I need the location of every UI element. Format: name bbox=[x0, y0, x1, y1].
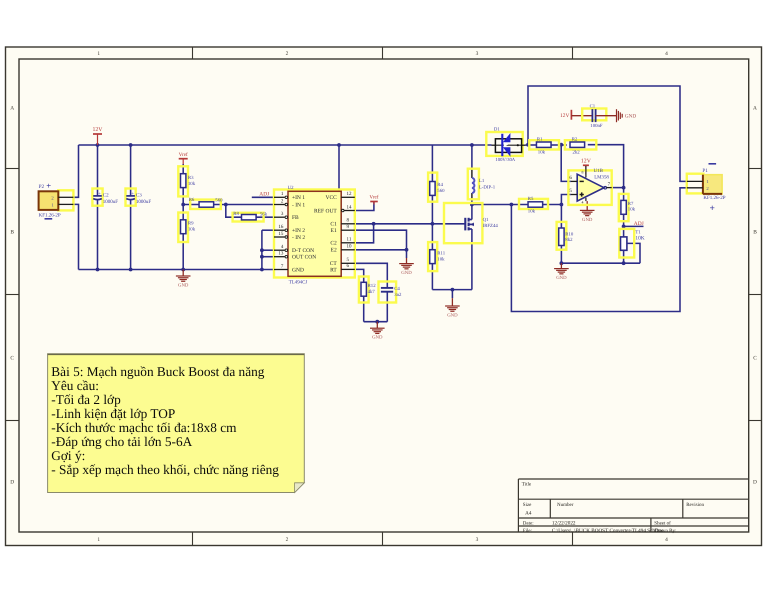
wire between R1 and R2 bbox=[551, 144, 567, 146]
svg-text:Vref: Vref bbox=[369, 195, 378, 201]
svg-text:4k7: 4k7 bbox=[368, 289, 376, 295]
svg-text:E1: E1 bbox=[331, 228, 337, 234]
svg-text:R1: R1 bbox=[537, 136, 543, 142]
wire C1-C2 tie bbox=[355, 224, 374, 243]
svg-text:LM358: LM358 bbox=[594, 175, 609, 181]
U2 pin 9 E1 bbox=[341, 229, 355, 231]
svg-text:R10: R10 bbox=[565, 231, 574, 237]
svg-text:L1: L1 bbox=[479, 178, 485, 184]
svg-text:13: 13 bbox=[278, 251, 284, 257]
ground divider bbox=[182, 270, 184, 277]
capacitor C3 bbox=[126, 189, 136, 206]
svg-text:1: 1 bbox=[97, 51, 100, 57]
svg-text:P1: P1 bbox=[702, 168, 708, 174]
U2 pin 11 C2 bbox=[341, 242, 355, 244]
wire Q1 ground rail bbox=[432, 289, 472, 291]
wire Q1 source bbox=[471, 229, 473, 290]
U2 pin 2 - IN 1 bbox=[274, 204, 285, 206]
capacitor C1 bbox=[582, 109, 606, 121]
svg-text:R2: R2 bbox=[572, 136, 578, 142]
junction dots bbox=[96, 143, 100, 147]
svg-text:D1: D1 bbox=[494, 127, 500, 133]
svg-text:C: C bbox=[753, 356, 757, 362]
svg-text:R6: R6 bbox=[189, 197, 195, 203]
svg-text:C2: C2 bbox=[103, 193, 109, 199]
svg-text:C2: C2 bbox=[330, 241, 337, 247]
svg-text:- IN 2: - IN 2 bbox=[292, 235, 305, 241]
svg-text:R8: R8 bbox=[233, 211, 239, 217]
capacitor C4 bbox=[379, 282, 397, 303]
wire CT to C4 bbox=[355, 263, 388, 288]
wire D1 right to R1 rail bbox=[526, 144, 537, 146]
svg-text:R3: R3 bbox=[188, 175, 194, 181]
U2 pin 5 CT bbox=[341, 262, 355, 264]
svg-text:GND: GND bbox=[372, 335, 383, 341]
svg-text:10k: 10k bbox=[628, 207, 636, 213]
U2 pin 3 FB bbox=[274, 216, 285, 218]
svg-text:3n2: 3n2 bbox=[394, 292, 402, 298]
svg-text:10k: 10k bbox=[528, 208, 536, 214]
wire T1 wiper bbox=[627, 243, 640, 263]
svg-text:C1: C1 bbox=[590, 104, 596, 110]
svg-text:560: 560 bbox=[437, 188, 445, 194]
wire ADJ net stub right bbox=[624, 225, 644, 227]
svg-text:10k: 10k bbox=[538, 150, 546, 156]
ground Q1 source bbox=[451, 290, 453, 299]
svg-text:KF1.26-2P: KF1.26-2P bbox=[39, 212, 61, 218]
svg-text:U1B: U1B bbox=[594, 168, 604, 174]
svg-text:1: 1 bbox=[97, 537, 100, 543]
svg-text:Bài 5: Mạch nguồn Buck Boost đ: Bài 5: Mạch nguồn Buck Boost đa năng bbox=[51, 364, 264, 379]
connector P1 bbox=[687, 174, 704, 194]
wire divider R9 leads bbox=[182, 205, 184, 220]
resistor R4 bbox=[428, 173, 437, 202]
wire R8 to FB pin3 bbox=[256, 216, 274, 218]
ground op-amp bbox=[586, 201, 588, 210]
resistor R2 bbox=[565, 140, 596, 149]
svg-text:ADJ: ADJ bbox=[634, 221, 644, 227]
wire C2 stems bbox=[97, 145, 99, 196]
op-amp U2 TL494 body bbox=[274, 190, 355, 278]
U2 pin 8 C1 bbox=[341, 223, 355, 225]
wire P2 pin1 riser bbox=[73, 145, 78, 197]
U2 pin 16 +IN 2 bbox=[274, 229, 285, 231]
note box bbox=[48, 354, 305, 493]
diode D1 dual 100V/30A bbox=[486, 132, 522, 156]
U2 pin 13 OUT CON bbox=[274, 256, 285, 258]
svg-text:+IN 2: +IN 2 bbox=[292, 228, 305, 234]
svg-text:12V: 12V bbox=[560, 113, 569, 119]
wire divider R3 leads bbox=[182, 164, 184, 174]
wire RT to R12 bbox=[355, 269, 364, 282]
svg-text:10k: 10k bbox=[188, 226, 196, 232]
svg-text:15: 15 bbox=[278, 231, 284, 237]
frame column ticks bbox=[192, 47, 194, 59]
svg-text:GND: GND bbox=[401, 270, 412, 276]
svg-text:P2: P2 bbox=[39, 184, 45, 190]
U2 pin 6 RT bbox=[341, 268, 355, 270]
wire P2 pin2 faller bbox=[73, 204, 78, 269]
wire R6-R8 step bbox=[226, 205, 242, 218]
capacitor C2 bbox=[92, 189, 102, 206]
svg-text:OUT CON: OUT CON bbox=[292, 255, 316, 261]
svg-text:- Sắp xếp mạch theo khối, chức: - Sắp xếp mạch theo khối, chức năng riên… bbox=[51, 462, 279, 477]
svg-text:10K: 10K bbox=[635, 236, 644, 242]
svg-text:KF1.26-2P: KF1.26-2P bbox=[703, 195, 725, 201]
potentiometer T1 bbox=[619, 229, 634, 258]
inductor L1 bbox=[468, 169, 479, 200]
frame row ticks bbox=[6, 168, 20, 170]
svg-text:IRFZ44: IRFZ44 bbox=[483, 223, 499, 229]
svg-text:1000uF: 1000uF bbox=[103, 199, 119, 205]
svg-text:R9: R9 bbox=[188, 221, 194, 227]
svg-text:8k2: 8k2 bbox=[565, 237, 573, 243]
svg-text:-Linh kiện đặt lớp TOP: -Linh kiện đặt lớp TOP bbox=[51, 406, 175, 421]
connector P2 bbox=[58, 190, 73, 210]
svg-text:Title: Title bbox=[522, 482, 532, 488]
svg-text:100V/30A: 100V/30A bbox=[495, 157, 515, 163]
wire T1 leads bbox=[623, 226, 625, 237]
svg-text:B: B bbox=[10, 230, 14, 236]
resistor R7 bbox=[619, 194, 629, 221]
svg-text:3: 3 bbox=[476, 537, 479, 543]
svg-text:Revision: Revision bbox=[686, 502, 704, 508]
wire op-amp pin5 feed bbox=[561, 195, 570, 205]
wire Q1 drain bbox=[471, 205, 473, 220]
svg-text:- IN 1: - IN 1 bbox=[292, 202, 305, 208]
svg-text:Vref: Vref bbox=[179, 152, 188, 158]
svg-text:10: 10 bbox=[347, 244, 353, 250]
wire E1 drop bbox=[355, 230, 407, 250]
svg-text:ADJ: ADJ bbox=[259, 192, 269, 198]
svg-text:Q1: Q1 bbox=[483, 217, 489, 223]
wire ADJ stub at U2 pin1 bbox=[252, 196, 274, 198]
wire E1E2 gnd stem blue bbox=[406, 250, 408, 258]
svg-text:C1: C1 bbox=[330, 222, 337, 228]
svg-text:REF OUT: REF OUT bbox=[314, 208, 337, 214]
svg-text:TL494CJ: TL494CJ bbox=[289, 280, 308, 286]
svg-text:C: C bbox=[10, 356, 14, 362]
ground E1E2 bbox=[406, 258, 408, 264]
wire GND bottom rail bbox=[79, 269, 275, 271]
inner sheet border bbox=[19, 59, 749, 532]
wire pin16 link bbox=[262, 229, 274, 231]
svg-text:CT: CT bbox=[330, 261, 338, 267]
wire R6 row to pin2 bbox=[183, 204, 199, 206]
resistor R11 bbox=[428, 242, 437, 271]
svg-text:Yêu cầu:: Yêu cầu: bbox=[51, 378, 99, 393]
svg-text:R4: R4 bbox=[437, 182, 443, 188]
svg-text:14: 14 bbox=[347, 204, 353, 210]
title block text bbox=[522, 482, 705, 534]
resistor R10 bbox=[557, 222, 567, 250]
wire T1 bottom rail bbox=[561, 262, 640, 264]
svg-text:Size: Size bbox=[523, 502, 532, 508]
U2 pin 4 D-T CON bbox=[274, 249, 285, 251]
wire U2 left common vertical bbox=[261, 230, 263, 269]
svg-text:File:: File: bbox=[523, 528, 532, 534]
transistor Q1 IRFZ44 bbox=[444, 203, 482, 243]
svg-text:100nF: 100nF bbox=[590, 123, 603, 129]
wire R12 bottom lead bbox=[363, 296, 365, 322]
wire R4 chain bbox=[431, 145, 433, 182]
wire C3 stems bbox=[130, 145, 132, 196]
svg-text:-Kích thước mạchc tối đa:18x8: -Kích thước mạchc tối đa:18x8 cm bbox=[51, 420, 237, 435]
svg-text:RT: RT bbox=[330, 267, 337, 273]
svg-text:D: D bbox=[753, 480, 757, 486]
svg-text:FB: FB bbox=[292, 215, 299, 221]
svg-text:10k: 10k bbox=[188, 181, 196, 187]
svg-text:T1: T1 bbox=[635, 229, 641, 235]
svg-text:GND: GND bbox=[582, 217, 593, 223]
svg-text:2: 2 bbox=[286, 51, 289, 57]
resistor R12 bbox=[359, 277, 369, 303]
svg-text:Sheet of: Sheet of bbox=[654, 520, 671, 526]
svg-text:R7: R7 bbox=[628, 201, 634, 207]
svg-text:GND: GND bbox=[292, 267, 304, 273]
svg-text:12V: 12V bbox=[93, 127, 104, 133]
resistor R1 bbox=[529, 140, 559, 149]
svg-text:GND: GND bbox=[625, 113, 636, 119]
op-amp U1B LM358 bbox=[568, 170, 611, 205]
ground R10 T1 bbox=[560, 263, 562, 268]
svg-text:A: A bbox=[753, 106, 757, 112]
wire R12-C4 bottom tie bbox=[364, 321, 388, 323]
wire R5 row bbox=[472, 204, 529, 206]
svg-text:A: A bbox=[10, 106, 14, 112]
svg-text:+IN 1: +IN 1 bbox=[292, 195, 305, 201]
svg-text:1000uF: 1000uF bbox=[136, 199, 152, 205]
svg-text:GND: GND bbox=[556, 275, 567, 281]
ground R12 C4 bbox=[376, 322, 378, 329]
svg-text:C3: C3 bbox=[136, 193, 142, 199]
svg-text:10k: 10k bbox=[437, 256, 445, 262]
svg-text:+: + bbox=[46, 181, 51, 191]
U2 pin 15 - IN 2 bbox=[274, 236, 285, 238]
svg-text:+: + bbox=[131, 191, 134, 196]
svg-text:C4: C4 bbox=[394, 286, 400, 292]
wire REF OUT to Vref bbox=[355, 202, 374, 211]
wire R7 leads bbox=[623, 188, 625, 201]
svg-text:8: 8 bbox=[582, 170, 584, 174]
svg-text:3: 3 bbox=[476, 51, 479, 57]
resistor R8 bbox=[233, 213, 264, 222]
wire L1 leads bbox=[471, 145, 473, 170]
svg-text:Drawn By:: Drawn By: bbox=[654, 528, 676, 534]
svg-text:B: B bbox=[753, 230, 757, 236]
svg-text:GND: GND bbox=[178, 282, 189, 288]
U2 pin 12 VCC bbox=[341, 196, 355, 198]
svg-text:12/22/2022: 12/22/2022 bbox=[552, 520, 576, 526]
ground for C1 bbox=[596, 115, 617, 117]
svg-text:11: 11 bbox=[347, 237, 352, 243]
wire pin4 link bbox=[262, 249, 274, 251]
resistor R5 bbox=[519, 199, 548, 209]
resistor R6 bbox=[190, 200, 221, 209]
wire VCC drop bbox=[338, 145, 340, 197]
resistor R3 bbox=[178, 166, 188, 196]
title block bbox=[518, 479, 748, 532]
wire gate from C1 pin bbox=[355, 223, 465, 225]
wire bottom loop to P1 pin2 bbox=[511, 188, 687, 312]
svg-text:Number: Number bbox=[557, 502, 574, 508]
U2 pin 7 GND bbox=[274, 269, 288, 271]
wire 12V top rail bbox=[79, 144, 492, 146]
wire pin13 link bbox=[262, 256, 274, 258]
svg-text:-Đáp ứng cho tải lớn 5-6A: -Đáp ứng cho tải lớn 5-6A bbox=[51, 434, 192, 449]
U2 pin 10 E2 bbox=[341, 249, 355, 251]
svg-text:L-DIP-1: L-DIP-1 bbox=[479, 185, 496, 191]
wire R10 leads bbox=[560, 205, 562, 229]
svg-text:C:\Users\..\BUCK BOOST Convert: C:\Users\..\BUCK BOOST Converter-TL494.S… bbox=[552, 528, 664, 534]
U2 pin 1 +IN 1 bbox=[274, 196, 285, 198]
svg-text:56k: 56k bbox=[260, 211, 268, 217]
svg-text:+: + bbox=[709, 204, 714, 214]
svg-text:Date:: Date: bbox=[523, 520, 534, 526]
svg-text:Gợi ý:: Gợi ý: bbox=[51, 448, 85, 463]
wire R11 leads bbox=[431, 224, 433, 250]
svg-text:+: + bbox=[98, 191, 101, 196]
svg-text:2k2: 2k2 bbox=[573, 150, 581, 156]
svg-text:-Tối đa 2 lớp: -Tối đa 2 lớp bbox=[51, 392, 121, 407]
svg-text:560: 560 bbox=[215, 198, 223, 204]
svg-text:VCC: VCC bbox=[325, 195, 337, 201]
svg-text:A4: A4 bbox=[525, 511, 532, 517]
U2 pin 14 REF OUT bbox=[344, 210, 355, 212]
wire E2 row to gnd bbox=[355, 249, 407, 251]
wire top loop to P1 pin1 bbox=[528, 86, 687, 181]
svg-text:D-T CON: D-T CON bbox=[292, 248, 314, 254]
svg-text:U2: U2 bbox=[288, 185, 294, 191]
svg-text:GND: GND bbox=[447, 312, 458, 318]
svg-text:R12: R12 bbox=[368, 283, 377, 289]
svg-text:R5: R5 bbox=[528, 196, 534, 202]
svg-text:4: 4 bbox=[665, 537, 668, 543]
wire C4 bottom lead bbox=[386, 292, 388, 322]
wire op-amp pin6 feed bbox=[561, 145, 571, 182]
svg-text:D: D bbox=[10, 480, 14, 486]
svg-text:12: 12 bbox=[347, 191, 353, 197]
svg-text:2: 2 bbox=[286, 537, 289, 543]
svg-text:12V: 12V bbox=[581, 159, 592, 165]
resistor R9 bbox=[178, 213, 188, 243]
wire R2 to feedback corner bbox=[588, 145, 624, 188]
svg-text:R11: R11 bbox=[437, 251, 445, 257]
svg-text:E2: E2 bbox=[331, 248, 337, 254]
wire op-amp output bbox=[612, 187, 624, 189]
svg-text:16: 16 bbox=[278, 224, 284, 230]
svg-text:4: 4 bbox=[582, 201, 584, 205]
svg-text:4: 4 bbox=[665, 51, 668, 57]
